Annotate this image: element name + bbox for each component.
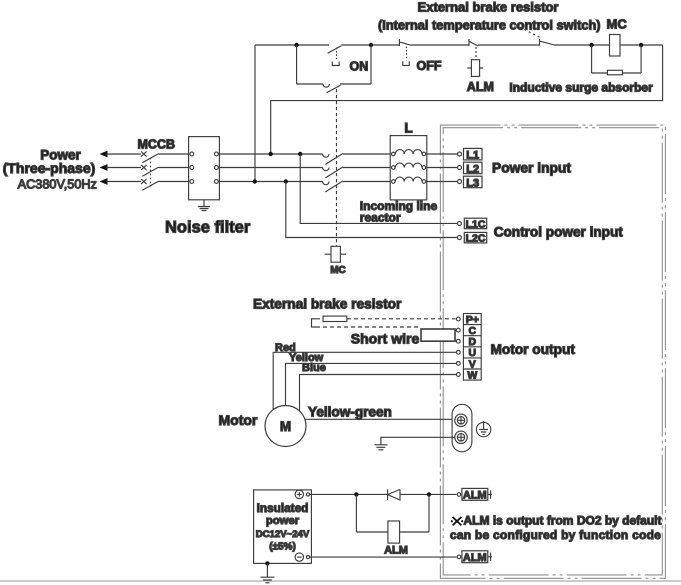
svg-text:can be configured by function: can be configured by function code [450,528,661,542]
wire: dashed brake resistor left bracket [312,319,317,327]
wire minus rail [310,556,457,558]
svg-text:(±5%): (±5%) [269,542,296,553]
wire U to motor (red) [273,352,456,409]
wire: dashed brake resistor lower [316,326,421,328]
contact: ALM relay NC [469,39,478,46]
node: MC coil left junction [589,43,593,47]
node: ON bypass right junction [369,43,373,47]
svg-text:L2: L2 [466,163,479,175]
resistor: inductive surge absorber [607,70,622,75]
wire: dashed brake resistor upper [316,318,456,320]
svg-text:MC: MC [330,265,346,276]
contactor MC pole 2 [323,167,391,178]
wire V to motor (yellow) [286,363,457,406]
svg-text:AC380V,50Hz: AC380V,50Hz [18,178,97,192]
svg-text:power: power [266,515,300,527]
note line 1 [453,517,462,525]
terminal circle L3 [458,180,462,184]
inductor winding 1 [392,152,396,156]
svg-text:M: M [280,419,291,434]
node: phase R / L1C tap [298,152,302,156]
terminal block P+/C/D/U/V/W [463,314,481,381]
terminal box L2 [464,162,483,174]
terminal box L2C [464,232,486,243]
wire reactor to L1 [427,153,458,155]
terminal circle L2 [458,166,462,170]
svg-text:ON: ON [350,60,369,74]
reactor L box [390,136,427,200]
PE screw upper [455,414,467,426]
motor M [265,406,306,447]
ALM thermal element box [471,60,479,77]
node: phase T / control drop [253,179,257,183]
wire plus rail [310,493,457,495]
terminal circle D [456,339,460,343]
wire phase T to contactor [218,181,322,183]
PE terminal stadium [452,404,472,452]
terminal box L3 [464,176,483,188]
svg-text:ALM: ALM [463,489,487,501]
wire ALM coil branch [356,494,429,532]
terminal plus [295,490,303,498]
svg-text:Power input: Power input [492,161,571,176]
ground: noise filter [198,200,210,211]
svg-text:W: W [467,369,477,381]
inductor winding 2 [392,166,396,170]
svg-text:Blue: Blue [302,362,326,374]
arrow phase S [100,164,108,171]
wire: control circuit top rail [255,44,663,46]
wire motor to PE terminal (yellow-green) [306,418,455,420]
terminal circle L2C [457,236,461,240]
contact: internal temperature switch [540,39,555,46]
pushbutton OFF actuator [406,47,408,61]
terminal box ALM lower [462,551,488,563]
wire W to motor (blue) [300,375,457,412]
svg-text:L1: L1 [466,150,479,162]
coil MC [610,35,621,57]
wire: MC circuit return to phase R [271,45,663,154]
svg-text:L2C: L2C [466,233,486,245]
node: phase T / L2C tap [284,179,288,183]
svg-text:(Internal temperature control: (Internal temperature control switch) [378,18,601,33]
terminal box L1C [464,218,486,229]
node: ON bypass left junction [294,43,298,47]
svg-text:External brake resistor: External brake resistor [253,297,402,312]
terminal circle V [456,362,460,366]
svg-text:Motor output: Motor output [491,342,576,357]
wire L2C tap [286,182,458,238]
svg-text:OFF: OFF [417,59,442,73]
wire L1C tap [300,154,457,223]
wire reactor to L2 [427,167,458,169]
ground: motor shield [374,445,387,450]
wire: dashed link from MC aux down to MC coil [336,89,338,246]
diode D1 [388,489,400,500]
terminal box L1 [464,148,483,160]
terminal circle P+ [456,317,460,321]
svg-text:Yellow-green: Yellow-green [308,405,392,420]
contact: MC auxiliary (seal-in) on bypass [323,84,341,93]
relay coil ALM [388,521,400,543]
wire phase S to contactor [218,167,322,169]
resistor: external brake resistor [323,316,347,321]
svg-text:ALM: ALM [384,545,408,557]
contactor MC pole 1 [323,153,391,164]
svg-text:Noise filter: Noise filter [165,219,251,237]
wire: ON bypass branch [297,45,371,84]
terminal circle W [456,373,460,377]
pushbutton OFF blade [399,39,410,46]
PE screw lower [455,431,467,443]
terminal circle U [456,350,460,354]
svg-text:Short wire: Short wire [351,331,420,347]
terminal circle L1C [457,221,461,225]
svg-text:(Three-phase): (Three-phase) [3,160,96,176]
svg-text:L: L [404,121,412,136]
arrow phase R [100,151,108,158]
svg-text:Inductive surge absorber: Inductive surge absorber [509,81,653,95]
node: diode left [354,492,358,496]
terminal circle C [456,328,460,332]
wire: dashed link contact to ALM element [475,47,477,60]
svg-text:ALM: ALM [467,80,494,94]
pushbutton ON blade [328,46,342,54]
wire reactor to L3 [427,181,458,183]
terminal circle ALM upper [457,493,461,497]
page bottom rule [0,580,681,582]
inverter enclosure dashed border inner [443,128,662,575]
coil MC (lower) [331,246,340,262]
breaker MCCB tie bar [150,158,152,187]
svg-text:L3: L3 [466,177,479,189]
svg-text:Insulated: Insulated [257,501,309,515]
svg-text:L1C: L1C [466,218,486,230]
svg-text:ALM is output from DO2 by defa: ALM is output from DO2 by default [464,514,662,528]
svg-text:Control power input: Control power input [494,225,624,240]
pushbutton ON actuator [336,48,338,61]
node: MC coil right junction [639,43,643,47]
wire: left drop from top rail to phase T [254,45,256,182]
terminal minus [295,553,303,561]
svg-text:reactor: reactor [360,211,401,225]
wire phase R to contactor [218,153,322,155]
terminal box ALM upper [462,488,488,500]
inverter enclosure dashed border outer [440,125,665,578]
arrow phase T [100,178,108,185]
svg-text:MCCB: MCCB [138,138,176,152]
breaker MCCB pole 3 [106,179,189,190]
contactor MC pole 3 [323,181,391,192]
surge absorber branch wires [592,45,642,73]
wire lower PE screw to ground [381,437,455,444]
svg-text:ALM: ALM [463,552,487,564]
insulated power supply box [254,490,312,564]
protective earth circle symbol [476,422,490,436]
short wire jumper C-D [421,329,455,341]
svg-text:External brake resistor: External brake resistor [418,0,559,15]
node: diode right [427,492,431,496]
svg-text:Motor: Motor [219,412,258,428]
svg-text:DC12V~24V: DC12V~24V [256,529,310,540]
node: power supply ground [265,561,269,565]
terminal circle L1 [458,152,462,156]
ground: power supply [260,563,274,582]
svg-text:MC: MC [607,17,628,32]
breaker MCCB pole 1 [106,151,189,162]
node: phase R / MC return [269,152,273,156]
noise filter box [189,137,220,200]
terminal circle ALM lower [457,555,461,559]
breaker MCCB pole 2 [106,165,189,176]
inductor winding 3 [392,180,396,184]
wire: dotted leader to temperature switch [511,23,541,39]
